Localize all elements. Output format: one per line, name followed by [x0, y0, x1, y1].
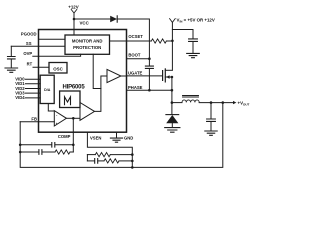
svg-text:PGOOD: PGOOD	[21, 31, 37, 36]
wire VIN branch to input cap	[172, 30, 193, 39]
capacitor C2 (comp)	[39, 150, 42, 155]
diode D2 schottky	[171, 103, 173, 115]
transistor Q1 source	[165, 76, 172, 78]
wire inductor to VOUT	[199, 102, 233, 104]
wire branch2 right	[70, 151, 73, 153]
node +12V label	[68, 4, 78, 9]
junction phase/inductor	[171, 101, 174, 104]
transistor Q1 drain	[165, 69, 172, 71]
wire VID0	[25, 78, 40, 80]
junction comp branch1	[72, 144, 75, 147]
wire PGOOD internal	[39, 38, 66, 40]
svg-text:VSEN: VSEN	[90, 135, 101, 140]
wire COMP stub	[72, 118, 74, 152]
wire FB to error amp	[20, 121, 54, 123]
ground (output cap)	[205, 131, 217, 135]
svg-text:VCC: VCC	[80, 20, 90, 25]
svg-text:FB: FB	[31, 117, 37, 122]
op-amp error amplifier	[54, 111, 66, 126]
capacitor C-IN	[189, 39, 198, 42]
chip label HIP6005	[63, 85, 86, 91]
wire branch1 left	[20, 144, 51, 146]
wire driver to UGATE	[121, 75, 127, 77]
wire SS to cap and monitor box	[11, 45, 65, 47]
wire VID2	[25, 88, 40, 90]
wire VCC internal stub	[73, 30, 75, 36]
svg-text:OSC: OSC	[53, 66, 63, 71]
wire error amp out to comparator	[66, 117, 80, 119]
op-amp U1 HIP6005 IC body	[39, 30, 127, 133]
oscillator OSC box	[49, 63, 67, 74]
wire VID3	[25, 92, 40, 94]
wire row A right	[110, 154, 132, 156]
ground (input cap)	[187, 53, 200, 57]
transistor Q1 gate bar	[162, 71, 164, 81]
transistor Q1 channel bar	[164, 69, 166, 82]
wire VID4	[25, 97, 40, 99]
svg-text:VID4: VID4	[15, 95, 25, 100]
pin label VID4	[15, 95, 25, 100]
svg-text:BOOT: BOOT	[128, 52, 141, 57]
capacitor C1 (comp)	[52, 143, 55, 148]
pin label BOOT	[128, 52, 141, 57]
pin label PHASE	[128, 85, 143, 90]
svg-text:PROTECTION: PROTECTION	[73, 45, 101, 50]
wire +12V down to VCC junction	[73, 13, 75, 30]
wire BOOT down to cap	[148, 59, 150, 66]
wire diode to boot vertical	[117, 19, 149, 59]
capacitor C-B (vsen)	[95, 159, 98, 164]
wire branch1 right	[55, 144, 73, 146]
ground (GND pin)	[116, 132, 118, 138]
svg-text:+VOUT: +VOUT	[238, 101, 250, 107]
wire D/A to error amp	[48, 104, 54, 112]
svg-text:OCSET: OCSET	[128, 34, 143, 39]
svg-text:+12V: +12V	[68, 4, 78, 9]
svg-text:+: +	[56, 122, 58, 126]
pin label VID2	[15, 86, 25, 91]
pin label GND	[124, 135, 133, 140]
svg-text:D/A: D/A	[44, 88, 51, 92]
pin label PGOOD	[21, 31, 37, 36]
wire row B right	[119, 160, 132, 162]
wire phase to inductor	[172, 102, 182, 104]
resistor R-B (vsen)	[104, 159, 119, 163]
svg-text:RT: RT	[27, 61, 33, 66]
junction vsen net to feedback	[131, 166, 134, 169]
pin label OCSET	[128, 34, 143, 39]
junction COMP tap	[72, 117, 75, 120]
diode D1 (boot diode)	[110, 16, 117, 22]
junction VCC node	[73, 18, 76, 21]
svg-text:HIP6005: HIP6005	[63, 85, 86, 91]
capacitor C-BOOT	[145, 66, 153, 68]
wire VIN vertical to OCSET junction and MOSFET drain	[171, 22, 173, 70]
wire UGATE pin to gate	[127, 75, 163, 77]
node +VOUT label	[238, 101, 250, 107]
pin label RT	[27, 61, 33, 66]
wire row B mid	[98, 160, 104, 162]
wire comparator out up to driver	[95, 76, 108, 111]
resistor R-A (vsen)	[95, 153, 110, 157]
wire OCSET pin	[127, 40, 152, 42]
wire BOOT pin to boot cap	[127, 58, 150, 60]
svg-text:GND: GND	[124, 135, 133, 140]
junction source	[171, 76, 174, 79]
junction output cap	[210, 101, 213, 104]
inductor L-OUT	[182, 100, 199, 103]
pin label VID0	[15, 77, 25, 82]
wire PHASE pin	[127, 89, 172, 91]
wire resistor to VIN	[166, 40, 172, 42]
wire feedback from VOUT down and left	[20, 103, 223, 168]
wire cap to ground	[192, 42, 194, 54]
capacitor C-OUT	[210, 103, 212, 119]
monitor and protection block	[65, 35, 110, 54]
wire VCC node to diode	[74, 18, 110, 20]
pin label COMP	[58, 134, 71, 139]
wire monitor to driver (inhibit)	[93, 54, 101, 88]
pin label OVP	[23, 51, 32, 56]
svg-text:VIN = +5V OR +12V: VIN = +5V OR +12V	[177, 18, 215, 24]
pin label UGATE	[128, 71, 143, 76]
svg-text:PHASE: PHASE	[128, 85, 143, 90]
junction row B	[131, 160, 134, 163]
pin label SS	[26, 41, 32, 46]
svg-text:UGATE: UGATE	[128, 71, 143, 76]
wire vsen rows link	[86, 155, 88, 161]
node +12V arrow	[71, 10, 77, 14]
op-amp PWM comparator	[80, 103, 95, 121]
inductor core bars	[183, 96, 199, 98]
junction PHASE	[171, 89, 174, 92]
node VIN label	[177, 18, 215, 24]
sawtooth block M	[60, 91, 80, 108]
ground (schottky)	[165, 128, 180, 133]
wire OCSET internal to monitor box	[110, 40, 127, 42]
resistor R2 (comp)	[55, 150, 70, 154]
wire vsen row A left	[87, 154, 95, 156]
junction OCSET/VIN	[171, 40, 174, 43]
junction phase/boot cap	[148, 89, 151, 92]
junction feedback tap	[222, 101, 225, 104]
wire cap to PHASE row	[148, 69, 150, 91]
pin label VCC	[80, 20, 90, 25]
wire OVP internal	[33, 54, 81, 56]
node +VOUT arrow	[233, 101, 236, 104]
wire branch2 left	[20, 151, 39, 153]
wire branch2 mid	[42, 151, 55, 153]
ground (SS cap)	[5, 68, 18, 72]
svg-text:SS: SS	[26, 41, 32, 46]
wire source down to phase	[171, 77, 173, 103]
svg-text:OVP: OVP	[23, 51, 32, 56]
transistor Q1 body arrow	[166, 75, 170, 79]
junction BOOT	[148, 57, 151, 60]
pin label VID1	[15, 81, 25, 86]
node VIN arrow	[170, 19, 176, 23]
junction FB branch1	[19, 144, 22, 147]
junction FB branch2	[19, 151, 22, 154]
junction row A	[131, 153, 134, 156]
svg-text:MONITOR AND: MONITOR AND	[72, 39, 103, 44]
resistor R-OCSET	[151, 39, 166, 43]
svg-text:COMP: COMP	[58, 134, 71, 139]
capacitor C-SS	[8, 57, 16, 59]
op-amp gate driver	[107, 69, 121, 82]
wire row B left	[87, 160, 94, 162]
pin label VSEN	[90, 135, 101, 140]
D/A converter box	[40, 75, 54, 103]
wire RT to OSC	[33, 66, 49, 68]
pin label VID3	[15, 90, 25, 95]
pin label FB	[31, 117, 37, 122]
wire VID1	[25, 83, 40, 85]
wire VSEN stub down and right	[87, 132, 132, 167]
